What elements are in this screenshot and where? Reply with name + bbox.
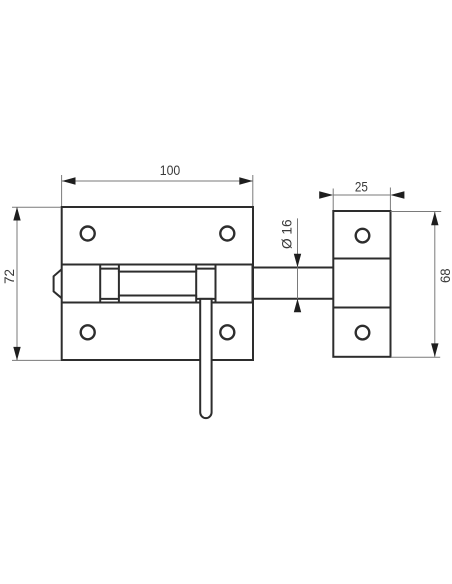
housing right edge: [215, 265, 217, 303]
dim 100 arrow right: [239, 177, 253, 184]
keeper hole bottom: [356, 326, 370, 340]
dim 25 arrow right outside: [390, 191, 404, 198]
screw hole top-left: [81, 227, 95, 241]
main plate body: [62, 207, 253, 360]
dim 72 arrow bottom: [13, 347, 20, 361]
dim diameter 16 arrow down: [294, 254, 301, 267]
bolt body right section: [216, 265, 253, 303]
screw hole bottom-left: [81, 325, 95, 339]
dim 100 arrow left: [62, 177, 76, 184]
keeper division upper: [333, 258, 390, 260]
svg-text:Ø 16: Ø 16: [278, 219, 294, 249]
dim diameter 16 line through shaft: [297, 267, 299, 298]
bolt head right edge: [99, 265, 101, 303]
dim 25 extension line right: [389, 188, 391, 211]
bolt guide housing bottom edge segments: [100, 298, 119, 300]
pull handle rod: [200, 299, 211, 418]
plate band top line: [62, 264, 253, 266]
keeper division lower: [333, 307, 390, 309]
dim 68 extension line top: [391, 211, 442, 213]
svg-text:68: 68: [437, 268, 452, 283]
dim 100 extension line left: [61, 175, 63, 206]
keeper plate: [333, 211, 390, 357]
dim 25 extension line left: [332, 189, 334, 211]
screw hole bottom-right: [220, 325, 234, 339]
dim 72 extension line bottom: [12, 359, 61, 361]
dim 72 line: [16, 207, 18, 360]
svg-text:25: 25: [355, 178, 368, 194]
dim 72 extension line top: [12, 206, 61, 208]
plate band bottom line: [62, 302, 253, 304]
dim 100 line: [62, 180, 253, 182]
dim diameter 16 arrow up: [294, 299, 301, 313]
bolt guide housing top edge segments: [100, 268, 119, 270]
bolt head chamfered tip: [54, 269, 62, 298]
bolt shaft to keeper bottom line: [253, 298, 333, 300]
dim 25 arrow left outside: [319, 191, 333, 198]
slot step verticals: [118, 265, 120, 272]
dim 25 line: [333, 194, 390, 196]
dim 100 extension line right: [252, 175, 254, 206]
dim 72 arrow top: [13, 207, 20, 221]
bolt shaft to keeper top line: [253, 267, 333, 269]
svg-text:100: 100: [160, 162, 181, 178]
keeper hole top: [356, 229, 370, 243]
dim 68 arrow top: [431, 212, 438, 226]
dim 68 extension line bottom: [391, 356, 440, 358]
dim 68 arrow bottom: [431, 343, 438, 357]
svg-text:72: 72: [1, 269, 17, 284]
screw hole top-right: [220, 227, 234, 241]
dim diameter 16 upper line: [297, 218, 299, 267]
bolt slot: [119, 272, 196, 296]
dim 68 line: [434, 212, 436, 357]
